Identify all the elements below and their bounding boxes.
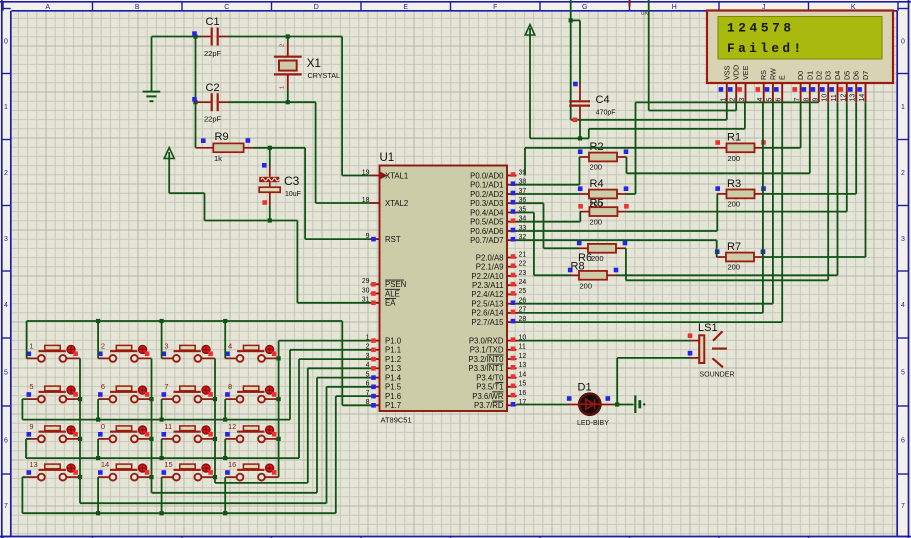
- svg-text:D1: D1: [578, 382, 592, 394]
- svg-text:11: 11: [831, 94, 838, 101]
- wire C1 to XTAL1 node: [228, 36, 342, 38]
- pin 13 P3.3/INT1: [468, 362, 526, 373]
- svg-text:200: 200: [580, 282, 593, 291]
- svg-text:C: C: [224, 4, 229, 11]
- XTAL1 pin arrow: [381, 172, 388, 179]
- blue marker C1: [192, 31, 197, 36]
- pin 34 P0.5/AD5: [470, 216, 526, 227]
- resistor R8 200: [568, 261, 618, 291]
- svg-text:RW: RW: [768, 68, 777, 80]
- wire R7 to D7: [764, 102, 866, 257]
- svg-text:6: 6: [101, 382, 105, 391]
- svg-text:P3.5/T1: P3.5/T1: [476, 383, 503, 392]
- svg-text:9: 9: [366, 233, 370, 240]
- svg-text:EA: EA: [385, 299, 396, 308]
- pin 16 P3.6/WR: [472, 390, 526, 401]
- LCD text line2 Failed!: [727, 41, 805, 56]
- svg-text:D7: D7: [861, 71, 870, 80]
- svg-text:XTAL2: XTAL2: [385, 199, 408, 208]
- pin 18 XTAL2: [362, 197, 409, 208]
- svg-text:P3.1/TXD: P3.1/TXD: [470, 346, 504, 355]
- junction: [96, 456, 100, 460]
- svg-text:1k: 1k: [214, 154, 222, 163]
- junction: [78, 397, 82, 401]
- svg-text:LS1: LS1: [698, 322, 718, 334]
- svg-text:10uF: 10uF: [285, 191, 301, 198]
- wire R5 to D5: [627, 102, 847, 211]
- svg-text:470pF: 470pF: [596, 110, 616, 117]
- pin 2 P1.1: [366, 344, 401, 355]
- pin 39 P0.0/AD0: [470, 169, 526, 180]
- svg-text:R3: R3: [727, 178, 741, 190]
- svg-text:P2.2/A10: P2.2/A10: [471, 272, 504, 281]
- button 16: [225, 460, 279, 480]
- pin 4 P1.3: [366, 362, 401, 373]
- junction: [160, 319, 164, 323]
- svg-text:1: 1: [720, 98, 727, 102]
- pin 28 P2.7/A15: [471, 316, 526, 327]
- pin 14 P3.4/T0: [476, 371, 526, 382]
- svg-text:3: 3: [739, 98, 746, 102]
- resistor R1 200: [715, 132, 765, 164]
- svg-text:5: 5: [766, 98, 773, 102]
- LCD pin 2 VDD: [728, 65, 741, 102]
- svg-text:AT89C51: AT89C51: [381, 416, 412, 425]
- junction: [569, 18, 573, 22]
- junction: [223, 418, 227, 422]
- svg-text:CRYSTAL: CRYSTAL: [308, 71, 341, 80]
- svg-text:D4: D4: [833, 71, 842, 80]
- wire keypad col4 net to P1.0: [279, 341, 371, 478]
- wire R1 to D0: [764, 102, 801, 147]
- svg-text:D: D: [314, 4, 319, 11]
- node C1-C2 vertical: [195, 37, 197, 148]
- LCD display LM016L body: [707, 11, 893, 84]
- svg-text:6: 6: [776, 98, 783, 102]
- svg-text:P1.7: P1.7: [385, 401, 401, 410]
- svg-text:C1: C1: [206, 16, 220, 28]
- junction: [286, 34, 290, 38]
- pin 9 RST: [366, 233, 401, 244]
- svg-text:RS: RS: [759, 70, 768, 80]
- wire R9 to node: [254, 147, 270, 149]
- wire keypad row1 net to P1.7: [27, 321, 371, 405]
- LCD pin 11 D4: [829, 71, 842, 102]
- svg-text:30: 30: [362, 287, 370, 294]
- button 11: [162, 422, 216, 442]
- button 9: [27, 422, 81, 442]
- ground: [143, 37, 161, 102]
- wire XTAL2: [316, 102, 371, 203]
- junction: [277, 437, 281, 441]
- pin 25 P2.4/A12: [471, 288, 526, 299]
- svg-text:P3.3/INT1: P3.3/INT1: [468, 364, 503, 373]
- svg-text:5: 5: [29, 382, 33, 391]
- pin 22 P2.1/A9: [476, 261, 527, 272]
- blue marker C3: [262, 163, 267, 168]
- junction: [160, 456, 164, 460]
- wire P0.2 to R4: [517, 193, 580, 195]
- svg-text:31: 31: [362, 297, 370, 304]
- svg-text:19: 19: [362, 169, 370, 176]
- svg-text:P3.4/T0: P3.4/T0: [476, 373, 504, 382]
- wire keypad row4 net to P1.6: [22, 396, 370, 513]
- junction: [286, 100, 290, 104]
- wire keypad row3 net to P1.2: [26, 359, 371, 458]
- svg-text:3: 3: [4, 236, 8, 243]
- pin 5 P1.4: [366, 371, 402, 382]
- svg-text:2: 2: [101, 341, 105, 350]
- wire P3.7 to LED: [517, 404, 579, 406]
- svg-text:18: 18: [362, 197, 370, 204]
- button 4: [225, 341, 279, 361]
- wire keypad col1 net to P1.5: [80, 358, 371, 503]
- svg-text:D5: D5: [842, 71, 851, 80]
- wire LED to node: [602, 404, 634, 406]
- red marker C4: [573, 118, 578, 123]
- capacitor C2: [196, 82, 228, 124]
- svg-text:P1.3: P1.3: [385, 364, 401, 373]
- svg-text:23: 23: [519, 270, 527, 277]
- svg-text:C3: C3: [284, 174, 300, 188]
- junction: [277, 397, 281, 401]
- blue marker R9 right: [246, 138, 251, 143]
- LED D1 LED-BIBY: [577, 382, 609, 428]
- svg-text:1: 1: [4, 104, 8, 111]
- pin 21 P2.0/A8: [476, 251, 527, 262]
- svg-text:12: 12: [519, 353, 527, 360]
- button 12: [225, 422, 279, 442]
- svg-text:P1.5: P1.5: [385, 383, 402, 392]
- svg-text:7: 7: [794, 98, 801, 102]
- power rail VSS: [571, 0, 727, 120]
- svg-text:8: 8: [803, 98, 810, 102]
- svg-text:22pF: 22pF: [204, 115, 222, 124]
- wire P0.4 to R8: [517, 213, 570, 276]
- pin 29 PSEN: [362, 278, 407, 289]
- svg-text:1: 1: [901, 104, 905, 111]
- svg-text:D6: D6: [852, 71, 861, 80]
- svg-text:3: 3: [901, 236, 905, 243]
- svg-text:RST: RST: [385, 235, 401, 244]
- junction: [96, 418, 100, 422]
- pin 15 P3.5/T1: [476, 381, 526, 392]
- svg-text:P2.7/A15: P2.7/A15: [471, 318, 504, 327]
- svg-text:Failed!: Failed!: [727, 41, 805, 56]
- sounder LS1: [698, 322, 735, 379]
- junction: [223, 456, 227, 460]
- junction: [149, 475, 153, 479]
- svg-text:6: 6: [4, 438, 8, 445]
- blue marker C2: [192, 97, 197, 102]
- svg-text:5: 5: [901, 370, 905, 377]
- svg-text:D0: D0: [796, 71, 805, 80]
- LCD pin 4 RS: [756, 70, 769, 102]
- svg-text:P0.1/AD1: P0.1/AD1: [470, 181, 503, 190]
- button 2: [98, 341, 152, 361]
- pin 32 P0.7/AD7: [470, 234, 526, 245]
- wire keypad row2 net to P1.1: [22, 350, 370, 420]
- LCD pin 8 D1: [802, 71, 815, 102]
- junction: [193, 100, 197, 104]
- svg-text:8: 8: [228, 382, 232, 391]
- blue marker R9 left: [201, 138, 206, 143]
- junction: [268, 218, 272, 222]
- pin 19 XTAL1: [362, 169, 409, 180]
- svg-text:P1.6: P1.6: [385, 392, 401, 401]
- pin 27 P2.6/A14: [471, 307, 526, 318]
- svg-text:7: 7: [4, 503, 8, 510]
- pin 10 P3.0/RXD: [469, 334, 527, 345]
- resistor R6 200: [577, 241, 627, 264]
- svg-text:12: 12: [228, 422, 236, 431]
- LCD text line1 124578: [727, 20, 795, 35]
- wire power to C4 node: [530, 137, 580, 139]
- blue marker LED right: [606, 396, 611, 401]
- LCD pin 12 D5: [839, 71, 852, 102]
- svg-text:P3.6/WR: P3.6/WR: [472, 392, 504, 401]
- pin 1 P1.0: [366, 334, 402, 345]
- LCD pin 1 VSS: [719, 65, 732, 102]
- power arrow left: [164, 148, 174, 194]
- junction: [268, 146, 272, 150]
- LCD pin 6 E: [774, 75, 787, 102]
- power arrow top: [525, 25, 535, 139]
- junction: [277, 356, 281, 360]
- pin 6 P1.5: [366, 381, 402, 392]
- LCD pin 5 RW: [765, 68, 778, 102]
- svg-text:13: 13: [519, 362, 527, 369]
- junction: [193, 34, 197, 38]
- svg-text:14: 14: [859, 94, 866, 102]
- LCD pin 14 D7: [857, 71, 870, 102]
- button 1: [27, 341, 81, 361]
- svg-text:4: 4: [757, 98, 764, 102]
- svg-text:P2.1/A9: P2.1/A9: [476, 263, 504, 272]
- svg-text:F: F: [493, 4, 497, 11]
- LCD pin 7 D0: [792, 71, 805, 102]
- LCD pin 3 VEE: [737, 65, 750, 102]
- svg-text:P2.6/A14: P2.6/A14: [471, 309, 504, 318]
- svg-text:2: 2: [280, 44, 286, 47]
- pin 26 P2.5/A13: [471, 298, 526, 309]
- pin 36 P0.3/AD3: [470, 197, 526, 208]
- wire C4 node to VEE: [580, 102, 745, 138]
- svg-text:R5: R5: [590, 198, 604, 210]
- button 0: [98, 422, 152, 442]
- svg-text:P0.0/AD0: P0.0/AD0: [470, 171, 504, 180]
- svg-text:ALE: ALE: [385, 289, 400, 298]
- svg-text:14: 14: [519, 371, 527, 378]
- junction: [78, 437, 82, 441]
- svg-text:4: 4: [901, 302, 905, 309]
- junction: [213, 437, 217, 441]
- svg-text:4: 4: [228, 341, 232, 350]
- svg-text:P0.5/AD5: P0.5/AD5: [470, 218, 504, 227]
- svg-text:P2.3/A11: P2.3/A11: [472, 281, 504, 290]
- svg-text:1: 1: [29, 341, 33, 350]
- wire C1 left: [152, 36, 202, 38]
- wire P3.0 to sounder: [517, 340, 700, 342]
- wire node to RST: [270, 148, 371, 239]
- svg-text:VSS: VSS: [722, 65, 731, 80]
- svg-text:R8: R8: [571, 261, 585, 273]
- wire C3 node to EA: [270, 221, 371, 303]
- svg-text:D2: D2: [814, 71, 823, 80]
- svg-text:P2.5/A13: P2.5/A13: [471, 300, 503, 309]
- svg-text:22pF: 22pF: [204, 49, 222, 58]
- svg-text:P0.2/AD2: P0.2/AD2: [470, 190, 503, 199]
- svg-text:P2.4/A12: P2.4/A12: [471, 290, 503, 299]
- capacitor C3: [259, 148, 301, 221]
- red marker sounder top: [688, 333, 693, 338]
- svg-text:9: 9: [29, 422, 33, 431]
- button 15: [162, 460, 216, 480]
- chip U1 AT89C51 body: [380, 152, 508, 425]
- red marker C3: [262, 200, 267, 205]
- svg-text:21: 21: [519, 251, 527, 258]
- svg-text:VDD: VDD: [732, 65, 741, 80]
- pin 37 P0.2/AD2: [470, 188, 526, 199]
- svg-text:2: 2: [901, 170, 905, 177]
- wire XTAL1: [342, 37, 370, 176]
- svg-text:D1: D1: [805, 71, 814, 80]
- svg-text:E: E: [778, 75, 787, 80]
- button 13: [27, 460, 81, 480]
- svg-text:U1: U1: [380, 152, 395, 164]
- svg-text:E: E: [403, 4, 408, 11]
- resistor R9: [196, 131, 254, 163]
- button 6: [98, 382, 152, 402]
- svg-text:P1.0: P1.0: [385, 336, 402, 345]
- svg-text:0: 0: [4, 39, 8, 46]
- svg-text:6: 6: [901, 438, 905, 445]
- svg-text:C2: C2: [206, 82, 220, 94]
- wire P0.0 to R1: [525, 148, 717, 176]
- wire R8 to D4: [617, 102, 838, 275]
- svg-text:P1.4: P1.4: [385, 373, 402, 382]
- svg-text:P0.4/AD4: P0.4/AD4: [470, 208, 504, 217]
- pin 7 P1.6: [366, 390, 401, 401]
- svg-text:P0.7/AD7: P0.7/AD7: [470, 236, 503, 245]
- svg-text:PSEN: PSEN: [385, 280, 406, 289]
- svg-text:200: 200: [591, 254, 604, 263]
- svg-text:G: G: [582, 4, 587, 11]
- pin 33 P0.6/AD6: [470, 225, 526, 236]
- pin 35 P0.4/AD4: [470, 206, 526, 217]
- capacitor C1: [202, 16, 228, 58]
- svg-text:R4: R4: [590, 178, 604, 190]
- svg-text:B: B: [135, 4, 140, 11]
- wire power to C3 bottom: [169, 193, 270, 220]
- pin 8 P1.7: [366, 399, 401, 410]
- svg-text:0K: 0K: [641, 11, 648, 17]
- svg-text:10: 10: [822, 94, 829, 102]
- svg-text:22: 22: [519, 261, 527, 268]
- wire P0.3 to R6: [517, 203, 579, 248]
- svg-text:1: 1: [280, 86, 286, 89]
- junction: [96, 319, 100, 323]
- button 3: [162, 341, 216, 361]
- svg-text:200: 200: [728, 154, 741, 163]
- svg-text:P3.7/RD: P3.7/RD: [474, 401, 504, 410]
- svg-text:H: H: [672, 4, 677, 11]
- svg-text:P2.0/A8: P2.0/A8: [476, 253, 504, 262]
- svg-text:SOUNDER: SOUNDER: [700, 372, 735, 379]
- junction: [213, 475, 217, 479]
- svg-text:15: 15: [519, 381, 527, 388]
- pin 11 P3.1/TXD: [470, 344, 526, 355]
- button 14: [98, 460, 152, 480]
- blue marker sounder bottom: [688, 351, 693, 356]
- wire P2.7 to E: [517, 102, 783, 322]
- svg-text:9: 9: [812, 98, 819, 102]
- svg-text:4: 4: [4, 302, 8, 309]
- svg-text:7: 7: [901, 503, 905, 510]
- svg-text:D3: D3: [824, 71, 833, 80]
- wire C2 to XTAL2 node: [228, 101, 316, 103]
- wire R2 to D1: [627, 102, 810, 173]
- wire R4 to D2: [627, 102, 819, 194]
- svg-text:16: 16: [519, 390, 527, 397]
- svg-text:25: 25: [519, 288, 527, 295]
- svg-text:13: 13: [850, 94, 857, 102]
- power rail VDD: [649, 0, 737, 111]
- junction: [223, 511, 227, 515]
- wire R3 to D6: [764, 102, 856, 193]
- junction: [160, 511, 164, 515]
- svg-text:LED-BIBY: LED-BIBY: [577, 420, 609, 427]
- pin 12 P3.2/INT0: [468, 353, 526, 364]
- svg-text:7: 7: [164, 382, 168, 391]
- wire P0.7 to R7: [517, 240, 717, 257]
- wire sounder bottom: [617, 358, 699, 405]
- LCD pin 13 D6: [848, 71, 861, 102]
- junction: [96, 511, 100, 515]
- svg-text:3: 3: [164, 341, 168, 350]
- button 7: [162, 382, 216, 402]
- svg-text:A: A: [45, 4, 50, 11]
- svg-text:200: 200: [590, 218, 603, 227]
- svg-text:X1: X1: [307, 58, 321, 70]
- wire P2.6 to RS: [517, 102, 763, 313]
- resistor R5 200: [578, 198, 628, 227]
- svg-text:200: 200: [728, 200, 741, 209]
- pin 30 ALE: [362, 287, 400, 298]
- junction: [223, 319, 227, 323]
- svg-text:13: 13: [29, 460, 37, 469]
- pin 17 P3.7/RD: [474, 399, 526, 410]
- svg-text:P0.3/AD3: P0.3/AD3: [470, 199, 503, 208]
- svg-text:11: 11: [164, 422, 172, 431]
- junction: [578, 136, 582, 140]
- border tick maroon: [629, 0, 631, 7]
- svg-text:R7: R7: [727, 241, 741, 253]
- svg-text:P1.2: P1.2: [385, 355, 401, 364]
- svg-text:VEE: VEE: [741, 65, 750, 80]
- junction: [160, 418, 164, 422]
- capacitor C4: [569, 20, 615, 138]
- svg-text:200: 200: [590, 163, 603, 172]
- svg-text:11: 11: [519, 344, 526, 351]
- svg-text:P1.1: P1.1: [385, 346, 401, 355]
- wire R6 to D3: [626, 102, 829, 280]
- pin 31 EA: [362, 297, 396, 308]
- button 5: [27, 382, 81, 402]
- wire P2.5 to RW: [517, 102, 773, 303]
- svg-text:124578: 124578: [727, 20, 795, 35]
- svg-text:2: 2: [730, 98, 737, 102]
